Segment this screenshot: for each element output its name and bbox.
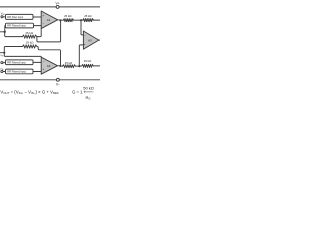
svg-text:A3: A3 <box>88 38 92 42</box>
node A3 plus net junction <box>78 65 80 67</box>
wire RG node to R1 <box>5 32 23 37</box>
node RG2 junction <box>3 52 5 54</box>
node V- terminal <box>56 78 59 81</box>
wire terminal to box4 <box>3 71 6 73</box>
svg-text:−: − <box>43 22 45 26</box>
protection block 1 <box>6 14 34 19</box>
wire V- rail <box>0 79 100 81</box>
node A3 minus net junction <box>80 19 82 21</box>
svg-text:+: + <box>42 14 44 18</box>
wire terminal to box1 <box>3 16 5 18</box>
svg-text:VOUT = (VIN+ − VIN−) × G + VRE: VOUT = (VIN+ − VIN−) × G + VREF <box>0 90 59 96</box>
svg-text:−: − <box>84 34 86 38</box>
op-amp A2 labels <box>43 60 51 73</box>
resistor Z3 25k <box>63 19 73 22</box>
svg-text:+: + <box>43 68 45 72</box>
wire RG1 pin stub <box>0 31 5 33</box>
svg-text:25 kΩ: 25 kΩ <box>25 31 33 35</box>
wire riser node to A3 minus input <box>81 20 83 35</box>
op-amp A3 <box>83 31 98 49</box>
svg-text:25 kΩ: 25 kΩ <box>65 61 72 65</box>
node A2 output junction <box>59 65 61 67</box>
wire R2 drop to A2 output loop <box>37 47 61 66</box>
resistor Z5 25k <box>63 65 76 68</box>
wire box2 left down to RG node <box>4 26 7 31</box>
wire RG2 pin stub <box>0 52 4 54</box>
wire box2 to A1 - <box>34 25 42 27</box>
wire riser node to A3 plus input <box>79 45 83 66</box>
svg-text:25 kΩ: 25 kΩ <box>64 14 71 18</box>
svg-text:−: − <box>43 60 45 64</box>
protection block 2 <box>6 23 34 28</box>
svg-text:RFI Filtered Input: RFI Filtered Input <box>7 71 26 74</box>
fraction bar <box>84 91 94 93</box>
wire A3 output <box>99 39 100 41</box>
svg-text:RFI Filtered Input: RFI Filtered Input <box>7 61 26 64</box>
wire RG2 up to R2 <box>4 47 22 53</box>
wire A1 out to Z3 <box>58 19 64 21</box>
svg-text:RFI Filtered Input: RFI Filtered Input <box>7 25 26 28</box>
svg-text:25 kΩ: 25 kΩ <box>84 59 91 63</box>
svg-text:VIN−: VIN− <box>1 12 5 16</box>
svg-text:RFI Filter Input: RFI Filter Input <box>7 16 23 19</box>
wire box4 to A2 + <box>33 71 41 73</box>
svg-text:V+: V+ <box>55 1 59 5</box>
svg-text:A1: A1 <box>47 18 51 22</box>
resistor Z6 to REF <box>82 64 94 67</box>
svg-text:50 kΩ: 50 kΩ <box>83 85 94 90</box>
resistor Z4 feedback A3 <box>83 19 94 22</box>
svg-text:25 kΩ: 25 kΩ <box>84 14 91 18</box>
node VIN+ A terminal <box>1 62 3 64</box>
wire terminal to box3 <box>3 62 6 64</box>
op-amp A1 labels <box>42 14 50 26</box>
resistor R2 25k feedback A2 <box>22 45 37 48</box>
wire Z4 to right edge <box>93 19 100 21</box>
node V+ terminal <box>56 5 59 8</box>
op-amp A2 <box>41 57 57 74</box>
node RG1 junction <box>4 31 6 33</box>
svg-text:+: + <box>84 43 86 47</box>
wire RG2 down to A2 corner <box>4 53 41 57</box>
op-amp A3 labels <box>84 34 92 47</box>
wire Z3 to node <box>74 19 83 21</box>
node A1 output junction <box>59 19 61 21</box>
wire A2 out to Z5 <box>58 65 63 68</box>
wire box1 to A1 + <box>33 16 41 18</box>
resistor R1 25k feedback A1 <box>22 35 36 38</box>
node VIN+ B terminal <box>1 70 3 72</box>
protection block 3 <box>6 60 34 65</box>
op-amp A1 <box>41 11 57 29</box>
wire V+ rail <box>0 6 100 8</box>
wire box3 to A2 - <box>33 61 41 63</box>
wire Z6 to right edge REF <box>93 65 100 67</box>
svg-text:V−: V− <box>56 82 60 86</box>
wire R1 drop to A1 output loop <box>37 21 61 42</box>
node VIN- input terminal <box>1 16 3 18</box>
protection block 4 <box>6 69 34 74</box>
wire R1 right to A1 corner riser <box>37 29 42 37</box>
svg-text:A2: A2 <box>47 64 51 68</box>
wire Z5 to node <box>76 65 82 67</box>
svg-text:25 kΩ: 25 kΩ <box>26 41 34 45</box>
